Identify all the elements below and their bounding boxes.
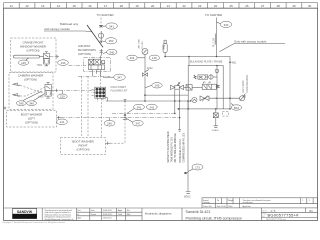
svg-text:Y501: Y501: [37, 64, 43, 67]
svg-text:12: 12: [25, 4, 29, 8]
balloon 340 shifter1: [103, 49, 117, 54]
svg-text:16: 16: [88, 4, 92, 8]
svg-text:WATER TO FLUSHING HEAD: WATER TO FLUSHING HEAD: [167, 131, 170, 162]
svg-text:B10: B10: [234, 106, 240, 110]
canopy module note: [220, 39, 286, 51]
svg-text:Appd date: Appd date: [243, 205, 251, 208]
pipe break symbol: [184, 192, 191, 199]
svg-text:347: 347: [135, 122, 140, 126]
balloon 344 gauge: [127, 55, 145, 60]
svg-text:Only with canopy module: Only with canopy module: [234, 39, 267, 43]
right info column: [261, 208, 317, 221]
balloon 345 camera: [16, 91, 42, 106]
washer reservoir: [14, 55, 40, 58]
svg-text:SANDVIK: SANDVIK: [17, 210, 33, 214]
hose size note shifter2: [213, 37, 216, 47]
wire camera valve to manifold: [51, 89, 95, 92]
balloon 250: [103, 38, 117, 44]
svg-text:AIR TO DRILLING MODULE: AIR TO DRILLING MODULE: [174, 133, 177, 163]
svg-text:to third party: to third party: [243, 201, 253, 204]
row C auto drain: [192, 97, 197, 102]
junction below coupler: [100, 41, 103, 43]
balloon 140: [58, 60, 69, 66]
svg-text:Date: Date: [91, 209, 95, 212]
balloon 341 shifter1: [103, 23, 117, 29]
wire risers below valve: [174, 90, 181, 132]
balloon 146 gauge: [149, 55, 159, 60]
svg-text:Drawn: Drawn: [91, 214, 96, 216]
receiver cartridge: [163, 40, 167, 56]
boot right connector wire: [106, 100, 127, 145]
svg-text:BG00577755+#: BG00577755+#: [268, 213, 300, 218]
svg-text:19: 19: [135, 4, 139, 8]
hose diagonal bulkhead: [87, 25, 103, 47]
svg-text:140: 140: [61, 61, 66, 65]
svg-text:344: 344: [130, 56, 135, 60]
svg-text:TANK MODULE PU 12/9: TANK MODULE PU 12/9: [171, 136, 174, 162]
sandvik logo: [13, 209, 37, 219]
svg-text:21: 21: [167, 4, 171, 8]
balloon 141 boot left: [57, 119, 68, 125]
balloon 140 dist: [104, 118, 115, 126]
svg-text:AIR LINE: AIR LINE: [137, 38, 140, 48]
svg-text:PU 8/6: PU 8/6: [142, 41, 144, 49]
svg-text:241: 241: [149, 105, 154, 109]
wire shifter1 drop: [99, 18, 103, 28]
note above box: [190, 61, 223, 64]
rotated note from receiver: [137, 38, 144, 48]
svg-text:343: 343: [224, 23, 229, 27]
upper cells row: [202, 198, 318, 208]
wire riser left: [87, 76, 89, 137]
svg-text:(OPTION): (OPTION): [25, 120, 38, 124]
svg-text:15: 15: [73, 4, 77, 8]
balloon 173: [188, 164, 203, 172]
svg-text:(OPTION): (OPTION): [26, 49, 39, 53]
box inlet riser and gauge: [215, 65, 219, 109]
wire dashdot below valve: [78, 75, 110, 77]
svg-text:BULKHEAD PLATE / FRAME: BULKHEAD PLATE / FRAME: [190, 61, 223, 64]
svg-text:BG00577755+A: BG00577755+A: [267, 218, 287, 221]
svg-text:140: 140: [107, 122, 112, 126]
wire water feed: [144, 94, 188, 96]
svg-text:Hydraulic diagrams: Hydraulic diagrams: [145, 212, 172, 216]
svg-text:341: 341: [109, 24, 114, 28]
revision table: [77, 208, 143, 221]
svg-text:PU 12/9: PU 12/9: [213, 37, 216, 47]
drain shutoff valve: [212, 109, 219, 132]
svg-text:14: 14: [57, 4, 61, 8]
balloon 145: [18, 58, 28, 65]
svg-text:Appr: Appr: [78, 217, 82, 220]
shutoff ball valve: [171, 82, 189, 89]
solenoid valve Y501: [37, 52, 50, 67]
svg-text:Drawn JKo: Drawn JKo: [203, 206, 212, 208]
svg-text:Date 12.06: Date 12.06: [217, 205, 226, 208]
wire riser camera: [81, 76, 83, 137]
camera solenoid valve Y410: [38, 83, 52, 99]
svg-text:22: 22: [182, 4, 186, 8]
svg-text:340: 340: [29, 101, 34, 105]
svg-text:26: 26: [245, 4, 249, 8]
svg-text:1: 1: [302, 200, 303, 202]
svg-text:J.Korhonen: J.Korhonen: [103, 218, 112, 220]
svg-text:with canopy module: with canopy module: [44, 27, 70, 31]
balloon 245: [145, 83, 162, 88]
svg-text:(OPTION): (OPTION): [78, 52, 91, 56]
svg-text:150: 150: [60, 95, 65, 99]
svg-text:10.02.2012: 10.02.2012: [103, 214, 112, 216]
wire shifter2 drop: [216, 18, 218, 58]
svg-text:2: 2: [309, 200, 310, 202]
svg-text:TO SHIFTER: TO SHIFTER: [205, 13, 222, 17]
titleblock: [2, 198, 318, 224]
air prep box: [188, 66, 223, 109]
balloon 343: [217, 21, 232, 27]
TO SHIFTER label left: [97, 13, 114, 17]
svg-text:23: 23: [198, 4, 202, 8]
svg-text:141: 141: [60, 120, 65, 124]
svg-text:FA22: FA22: [147, 67, 153, 70]
svg-text:(OPTION): (OPTION): [76, 147, 89, 151]
balloon B10: [231, 104, 242, 111]
svg-text:HOSE REEL PU 16/12: HOSE REEL PU 16/12: [180, 139, 182, 163]
svg-text:Sandvik DL421: Sandvik DL421: [186, 210, 211, 214]
svg-text:Copyright © Sandvik Mining and: Copyright © Sandvik Mining and Construct…: [2, 221, 66, 224]
svg-text:COMPRESSOR: COMPRESSOR: [246, 75, 249, 93]
connector above valve: [100, 49, 103, 56]
boot washer left option box: [7, 111, 57, 128]
camera nozzle 2: [13, 94, 20, 97]
svg-text:JKo: JKo: [127, 210, 130, 212]
svg-text:245: 245: [155, 84, 160, 88]
pressure gauge: [142, 49, 148, 73]
balloon 241 dist: [146, 104, 157, 110]
air mist directional valve: [89, 56, 105, 77]
wire manifold feed: [100, 72, 102, 87]
crane front window washer option box: [11, 38, 57, 72]
camera crossed wires: [20, 85, 45, 96]
cold start manifold block: [91, 87, 106, 102]
svg-text:13: 13: [41, 4, 45, 8]
svg-text:27: 27: [261, 4, 265, 8]
svg-text:341: 341: [137, 105, 142, 109]
row C oiler valve: [200, 96, 239, 102]
svg-text:145: 145: [21, 61, 26, 65]
border mid mark left: [4, 107, 7, 110]
svg-text:MSa: MSa: [127, 214, 131, 216]
air mist valve enclosure: [84, 58, 111, 72]
plugged port on main line: [190, 100, 191, 101]
svg-text:Rev: Rev: [78, 210, 81, 212]
hydraulic diagrams cell: [145, 208, 182, 221]
balloon 340 camera: [27, 94, 44, 106]
svg-text:30: 30: [308, 4, 312, 8]
svg-text:340: 340: [109, 50, 114, 54]
wire supply line A: [164, 56, 230, 58]
balloon 347 dist: [125, 118, 143, 126]
box bottom stub: [177, 108, 217, 110]
svg-text:28: 28: [277, 4, 281, 8]
balloon 347 manifold: [103, 74, 125, 80]
wire long drop: [187, 100, 189, 191]
check valve from compressor: [240, 93, 246, 100]
svg-text:Bulkhead only: Bulkhead only: [60, 22, 79, 26]
row A pilot valve: [194, 75, 217, 79]
svg-text:17: 17: [104, 4, 108, 8]
svg-text:347: 347: [117, 76, 122, 80]
muffler icon: [222, 112, 228, 117]
logo cell divider: [41, 208, 43, 221]
svg-text:18: 18: [120, 4, 124, 8]
svg-text:TO SHIFTER: TO SHIFTER: [97, 13, 114, 17]
svg-text:12.06.2012: 12.06.2012: [103, 210, 112, 212]
property note block: [45, 209, 74, 221]
svg-text:W01: W01: [232, 62, 238, 65]
svg-text:Weight: Weight: [228, 199, 234, 202]
svg-text:COMPRESSED AIR PU 12/9: COMPRESSED AIR PU 12/9: [183, 132, 186, 162]
svg-text:29: 29: [292, 4, 296, 8]
svg-text:Chkd: Chkd: [118, 214, 122, 216]
wire dashdot distribution: [61, 113, 180, 119]
ruler band: [4, 3, 318, 9]
air from compressor note: [242, 75, 249, 93]
svg-text:(OPTION): (OPTION): [24, 77, 37, 81]
TO SHIFTER label right: [205, 13, 222, 17]
boot left connector and wire: [57, 116, 62, 119]
balloon 150: [57, 90, 67, 98]
wire riser manifold down: [100, 98, 102, 137]
svg-text:11: 11: [10, 4, 13, 8]
svg-text:AIR FROM: AIR FROM: [242, 81, 245, 93]
svg-text:24: 24: [214, 4, 218, 8]
balloon 341 dist: [127, 104, 144, 113]
wire manifold out to right: [106, 98, 191, 101]
svg-text:Chkd: Chkd: [228, 206, 232, 208]
cold start label: [111, 86, 129, 92]
port tick a: [184, 172, 188, 174]
svg-text:345: 345: [19, 101, 24, 105]
svg-text:FLUSHING KIT: FLUSHING KIT: [111, 89, 129, 92]
row B main valve: [192, 82, 219, 89]
svg-text:20: 20: [151, 4, 155, 8]
svg-text:173: 173: [195, 165, 200, 169]
main title texts: [186, 210, 243, 220]
svg-text:25: 25: [230, 4, 234, 8]
wire drop to box top: [188, 57, 190, 66]
svg-text:W502: W502: [184, 196, 191, 199]
svg-text:146: 146: [152, 56, 157, 60]
svg-text:Sandvik Mining and Constructio: Sandvik Mining and Construction Oy: [45, 218, 74, 221]
svg-text:DRAIN: DRAIN: [212, 129, 219, 132]
svg-text:Plumbing circuit, ITH5 compres: Plumbing circuit, ITH5 compressor: [186, 217, 243, 221]
quick coupler: [98, 31, 103, 40]
wire crane valve to balloon 140: [49, 55, 86, 66]
camera washer option box: [9, 73, 53, 110]
svg-text:250: 250: [109, 39, 114, 43]
row B inlet block: [186, 85, 192, 91]
compressor line: [223, 56, 237, 109]
boot washer right option box: [61, 138, 106, 155]
rotated port labels: [167, 131, 186, 162]
air mist blowdown label: [78, 44, 96, 56]
bulkhead only note: [44, 22, 92, 32]
svg-text:Appd: Appd: [118, 209, 122, 212]
FA22 needle valve: [142, 67, 153, 102]
bottom strip divider: [4, 207, 203, 209]
camera nozzle 1: [13, 83, 20, 86]
svg-text:Quantity: Quantity: [203, 201, 210, 204]
